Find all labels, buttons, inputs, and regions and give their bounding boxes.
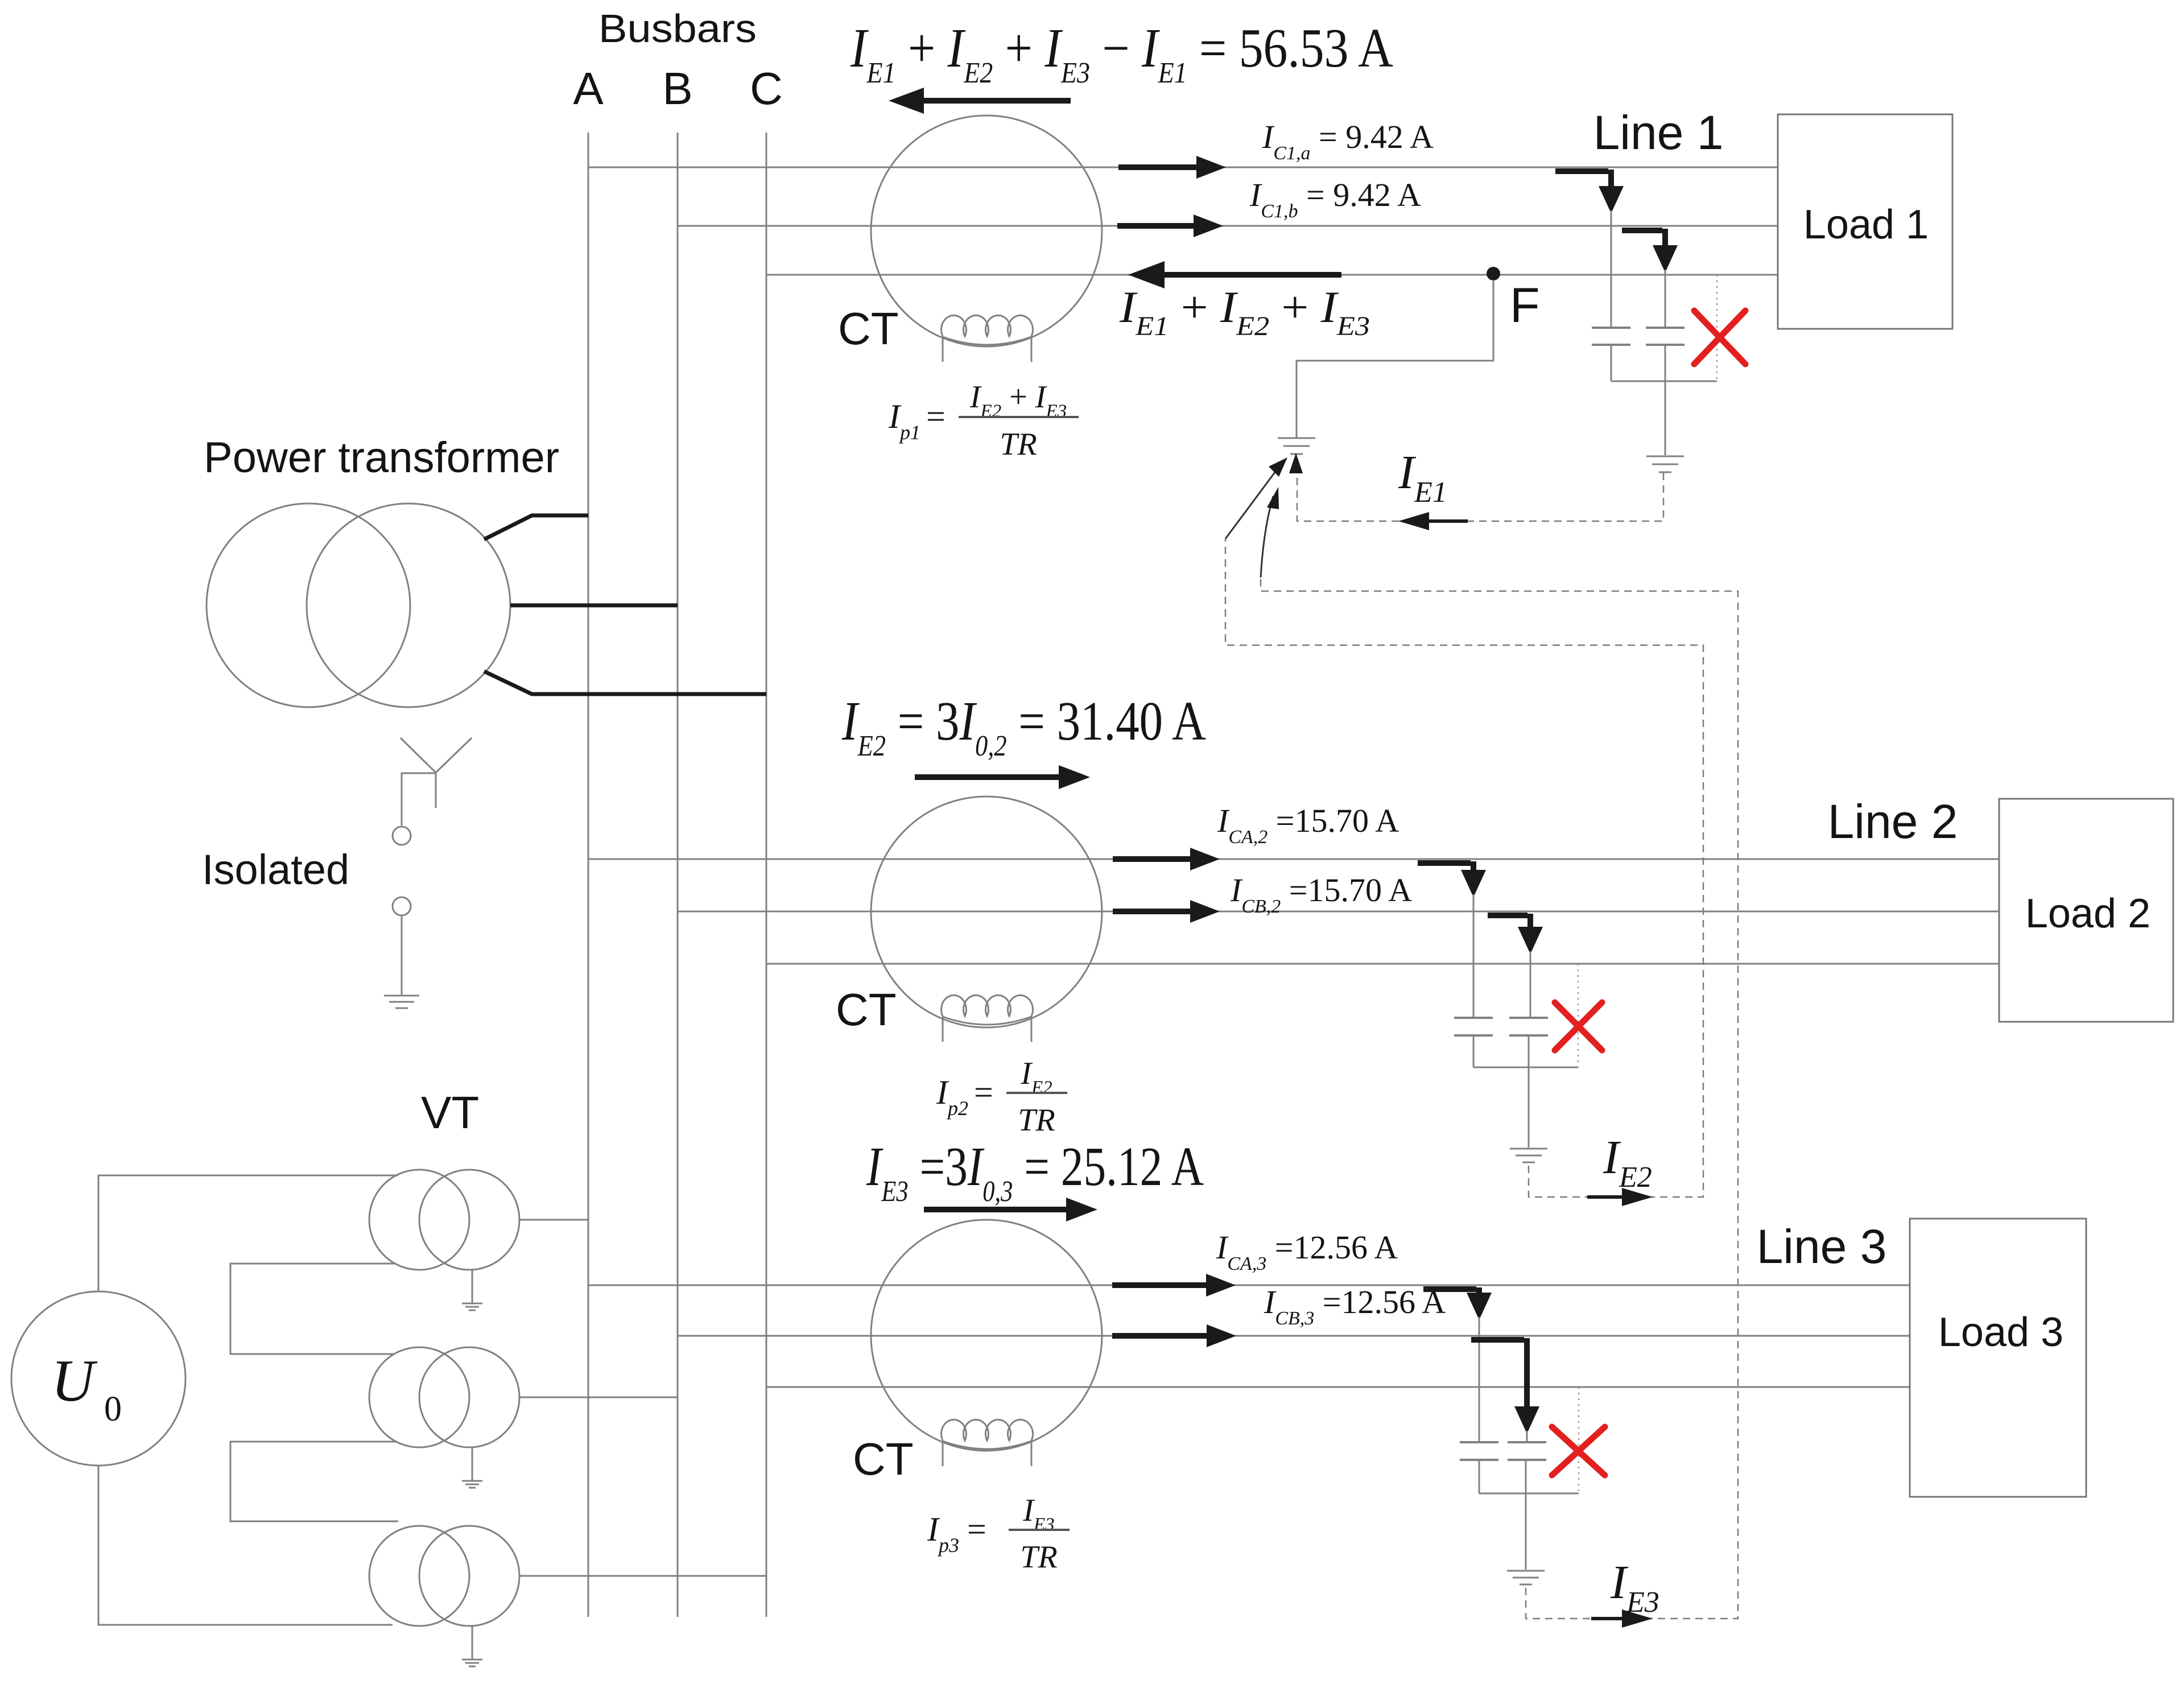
isolated neutral Y symbol: [401, 738, 472, 808]
svg-text:Load 1: Load 1: [1803, 202, 1929, 247]
svg-text:=: =: [926, 398, 946, 435]
bent arrow capacitive current phase b down: [1622, 229, 1665, 245]
load 1 box: [1778, 114, 1952, 329]
fault mark X (red) line2: [1555, 1002, 1602, 1050]
arrow flow line1 phase a: [1118, 164, 1199, 170]
wire transformer phase C to busbar C: [484, 671, 766, 694]
wire dotted faulted-phase stub line3: [1578, 1387, 1580, 1493]
wire bracket VT1-VT2: [230, 1264, 395, 1354]
wire capacitor common bar line1: [1611, 381, 1717, 382]
wire VT3 ground lead: [472, 1626, 473, 1660]
svg-text:TR: TR: [1020, 1539, 1057, 1575]
busbar A: [588, 133, 589, 1617]
wire stub arrow to capacitor 2b: [1530, 951, 1531, 1018]
wire bar to earth line2: [1528, 1067, 1530, 1148]
svg-text:CT: CT: [853, 1434, 914, 1484]
wire line1 phase b: [678, 225, 1778, 227]
bent arrow capacitive current line2 phase a down: [1418, 861, 1473, 872]
arrow annotation to earth point 1: [1225, 468, 1278, 539]
wire fault path F to earth: [1297, 280, 1493, 437]
svg-text:Line 3: Line 3: [1757, 1220, 1887, 1273]
ground (capacitor earth, line1): [1646, 456, 1684, 472]
ground (VT2): [462, 1481, 482, 1488]
wire U0 bottom to VT3: [98, 1466, 393, 1625]
wire stub arrow to capacitor 3b: [1526, 1431, 1528, 1442]
wire stub arrow to capacitor 1a: [1611, 210, 1612, 328]
ground (capacitor earth, line2): [1510, 1149, 1547, 1162]
wire capacitor common bar line3: [1479, 1493, 1579, 1495]
wire cap C3a to bar: [1479, 1460, 1480, 1493]
svg-text:A: A: [573, 63, 604, 114]
wire cap C3b to bar: [1525, 1460, 1527, 1493]
busbar B: [677, 133, 679, 1617]
ground (VT1): [462, 1303, 482, 1310]
wire VT3 to busbar C: [519, 1575, 766, 1577]
VT2 (two overlapping circles): [369, 1347, 469, 1447]
wire transformer phase A to busbar A: [484, 515, 588, 539]
svg-text:Line 2: Line 2: [1828, 795, 1958, 848]
arrow flow line2 phase a: [1113, 856, 1193, 862]
svg-text:Load 2: Load 2: [2025, 891, 2150, 936]
svg-text:CT: CT: [836, 984, 897, 1035]
node F dot: [1487, 267, 1500, 280]
arrow IE3 flow (right): [924, 1207, 1069, 1212]
fault mark X (red) line3: [1552, 1427, 1605, 1475]
wire line1 phase c: [766, 274, 1778, 276]
arrow flow line3 phase a: [1112, 1282, 1209, 1288]
svg-text:=: =: [967, 1510, 986, 1548]
wire line2 phase a: [588, 858, 1999, 860]
switch terminal circle lower (open gap = isolated): [393, 897, 411, 915]
wire line3 phase a: [588, 1285, 1910, 1286]
arrow IE2 on dashed path (right): [1587, 1195, 1625, 1199]
wire cap C1a to bar: [1611, 345, 1612, 381]
wire neutral tap: [402, 773, 436, 826]
svg-text:TR: TR: [1018, 1103, 1055, 1138]
wire bar to earth line3: [1525, 1493, 1527, 1570]
svg-text:Busbars: Busbars: [598, 6, 757, 51]
wire dotted faulted-phase stub line2: [1578, 964, 1579, 1067]
ground (transformer neutral): [384, 996, 419, 1008]
svg-text:TR: TR: [1000, 427, 1037, 462]
capacitor C1a: [1592, 328, 1630, 345]
arrow flow line1 phase b: [1117, 223, 1196, 229]
svg-text:C: C: [750, 63, 783, 114]
arrow IE1 into earth (up): [1289, 453, 1303, 473]
bent arrow capacitive current line3 phase b down: [1471, 1338, 1527, 1406]
ground (VT3): [462, 1660, 482, 1666]
wire VT2 to busbar B: [519, 1397, 678, 1398]
source U0 circle: [11, 1291, 185, 1466]
svg-text:Power transformer: Power transformer: [204, 434, 559, 482]
svg-text:Load 3: Load 3: [1938, 1310, 2063, 1355]
arrow IE1 on dashed path (left): [1398, 512, 1429, 530]
wire capacitor common bar line2: [1473, 1067, 1578, 1068]
bent arrow capacitive current line2 phase b down: [1488, 914, 1530, 927]
wire stub arrow to capacitor 3a: [1479, 1317, 1480, 1442]
wire VT2 ground lead: [472, 1447, 473, 1481]
wire dashed IE3 return path: [1261, 577, 1738, 1619]
switch terminal circle upper: [393, 827, 411, 845]
wire bracket VT2-VT3: [230, 1442, 398, 1521]
wire stub arrow to capacitor 2a: [1473, 894, 1475, 1018]
CT3 secondary coil: [942, 1419, 1033, 1466]
wire U0 top to VT1: [98, 1175, 398, 1291]
busbar C: [766, 133, 767, 1617]
wire cap C2a to bar: [1473, 1035, 1475, 1067]
wire stub arrow to capacitor 1b: [1665, 270, 1666, 328]
CT1 secondary coil: [942, 315, 1033, 362]
load 3 box: [1910, 1219, 2086, 1497]
wire line2 phase b: [678, 911, 1999, 913]
wire VT1 ground lead: [472, 1270, 473, 1303]
arrow flow line2 phase b: [1113, 909, 1193, 914]
CT2 core circle: [871, 796, 1102, 1027]
wire line2 phase c: [766, 963, 1999, 965]
wire bar to earth line1: [1665, 381, 1666, 455]
capacitor C1b: [1646, 328, 1685, 345]
capacitor C2b: [1509, 1018, 1548, 1035]
wire cap C1b to bar: [1665, 345, 1666, 381]
svg-text:Isolated: Isolated: [202, 846, 349, 893]
arrow IE3 on dashed path (right): [1591, 1617, 1626, 1620]
power transformer T1 (two overlapping circles): [207, 503, 410, 707]
fault mark X (red) line1: [1694, 311, 1745, 364]
wire dotted faulted-phase stub line1: [1716, 275, 1718, 381]
svg-text:=: =: [974, 1074, 993, 1111]
svg-text:VT: VT: [421, 1087, 479, 1138]
load 2 box: [1999, 799, 2173, 1022]
capacitor C3a: [1460, 1442, 1498, 1460]
wire line1 phase a: [588, 167, 1778, 168]
arrow flow line3 phase b: [1112, 1333, 1209, 1339]
svg-text:F: F: [1510, 278, 1540, 333]
ground (capacitor earth, line3): [1507, 1571, 1545, 1584]
wire line3 phase b: [678, 1335, 1910, 1337]
CT1 core circle: [871, 115, 1102, 346]
capacitor C3b: [1508, 1442, 1546, 1460]
arrow total earth-fault current (left): [889, 88, 924, 114]
svg-text:0: 0: [104, 1390, 122, 1429]
capacitor C2a: [1454, 1018, 1493, 1035]
wire VT1 to busbar A: [519, 1219, 588, 1221]
bent arrow capacitive current phase a down: [1555, 170, 1611, 188]
arrow annotation to earth point 2 (curved): [1261, 496, 1273, 577]
wire line3 phase c: [766, 1386, 1910, 1388]
VT3 (two overlapping circles): [369, 1526, 469, 1626]
wire to ground: [401, 915, 403, 996]
wire dashed IE2 return path: [1225, 539, 1703, 1197]
wire transformer phase B to busbar B: [510, 604, 678, 608]
VT1 (two overlapping circles): [369, 1170, 469, 1270]
svg-text:CT: CT: [838, 303, 899, 354]
bent arrow capacitive current line3 phase a down: [1423, 1287, 1479, 1294]
arrow earth-fault return on phase c (left): [1128, 261, 1165, 288]
CT2 secondary coil: [942, 995, 1033, 1042]
wire dashed IE1 return path: [1297, 473, 1663, 521]
svg-text:U: U: [51, 1347, 98, 1414]
arrow IE2 flow (right): [915, 774, 1062, 780]
CT3 core circle: [871, 1220, 1102, 1451]
svg-text:Line 1: Line 1: [1593, 106, 1724, 159]
wire cap C2b to bar: [1528, 1035, 1530, 1067]
ground (fault earth, line1): [1278, 438, 1315, 454]
svg-text:B: B: [662, 63, 692, 114]
